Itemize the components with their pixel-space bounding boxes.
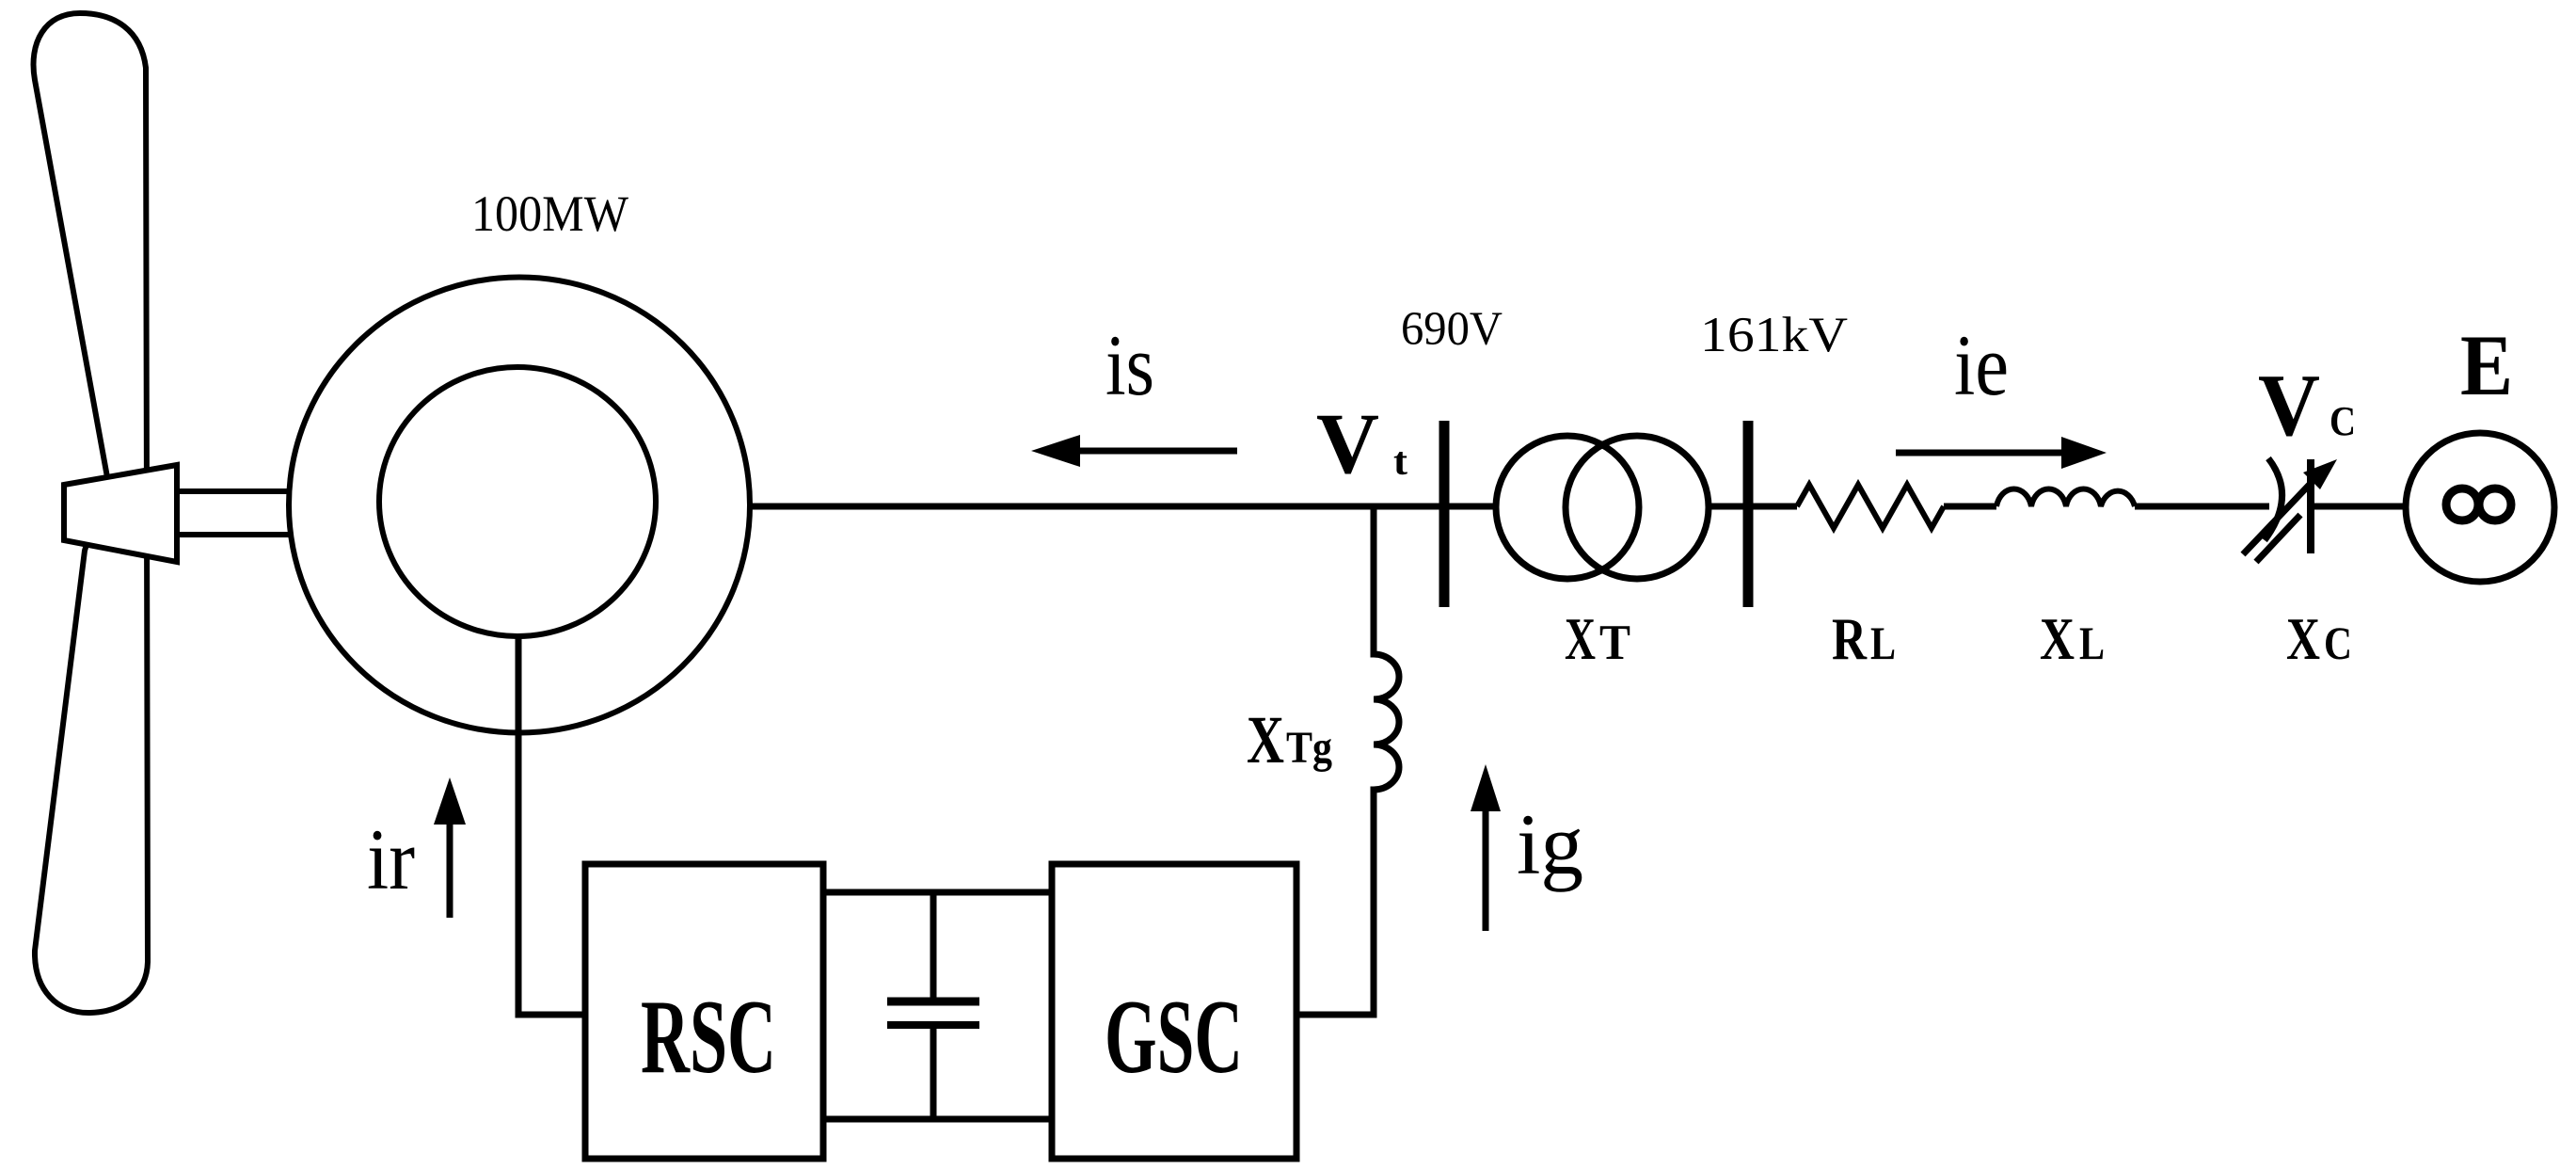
svg-text:X: X [1247,702,1284,777]
turbine hub [64,465,177,562]
transformer XT [1496,436,1639,579]
node Vt branch wire with inductor XTg down to GSC [1296,506,1399,1015]
svg-text:T: T [1599,616,1630,670]
GSC box [1052,864,1296,1159]
svg-text:V: V [1316,395,1379,491]
svg-text:C: C [2324,617,2352,669]
svg-text:ig: ig [1517,796,1583,892]
infinite bus E circle [2406,433,2554,582]
svg-text:L: L [1870,617,1896,669]
svg-text:is: is [1105,317,1154,413]
arrow is [1078,448,1237,455]
svg-text:E: E [2460,317,2513,413]
generator rotor inner circle [379,367,656,636]
variable capacitor XC right plate [2307,459,2314,553]
svg-text:X: X [2040,605,2075,672]
svg-text:X: X [1565,605,1596,672]
resistor RL [1797,485,1944,528]
generator G outer circle [289,278,750,733]
svg-text:R: R [1832,605,1868,672]
svg-text:C: C [2330,398,2356,444]
svg-text:RSC: RSC [641,979,776,1096]
inductor XL [1996,488,2135,506]
svg-text:t: t [1393,440,1407,484]
variable capacitor XC curved plate [2265,458,2282,540]
RSC box [585,864,823,1159]
svg-text:100MW: 100MW [471,185,628,242]
variable capacitor second diagonal [2256,515,2300,562]
DC link top rail [823,889,1052,896]
wire inductor to capacitor [2135,504,2269,510]
arrow ir [447,821,453,918]
wind turbine blades [34,13,148,1013]
wire 161kV bus to resistor [1709,504,1797,510]
svg-text:ie: ie [1954,317,2009,413]
infinity symbol [2446,488,2478,520]
shaft [177,491,292,535]
bus bar 690V [1439,421,1450,607]
bus bar 161kV [1743,421,1754,607]
arrow ie [1896,450,2067,456]
wire capacitor to infinite bus [2314,504,2407,510]
svg-text:GSC: GSC [1105,979,1243,1096]
DC link bottom rail [823,1116,1052,1123]
svg-text:V: V [2258,357,2320,455]
svg-text:X: X [2286,605,2320,672]
arrow ig [1483,808,1489,931]
wire resistor to inductor [1944,504,1996,510]
wire stator to 690V bus [751,504,1496,510]
svg-text:L: L [2079,617,2105,669]
svg-text:ir: ir [367,811,415,907]
DC link capacitor [930,892,937,1000]
svg-text:161kV: 161kV [1700,308,1848,362]
svg-text:Tg: Tg [1286,723,1332,773]
svg-text:690V: 690V [1401,303,1503,356]
wire rotor to RSC [518,637,585,1015]
variable capacitor arrow [2243,475,2318,554]
